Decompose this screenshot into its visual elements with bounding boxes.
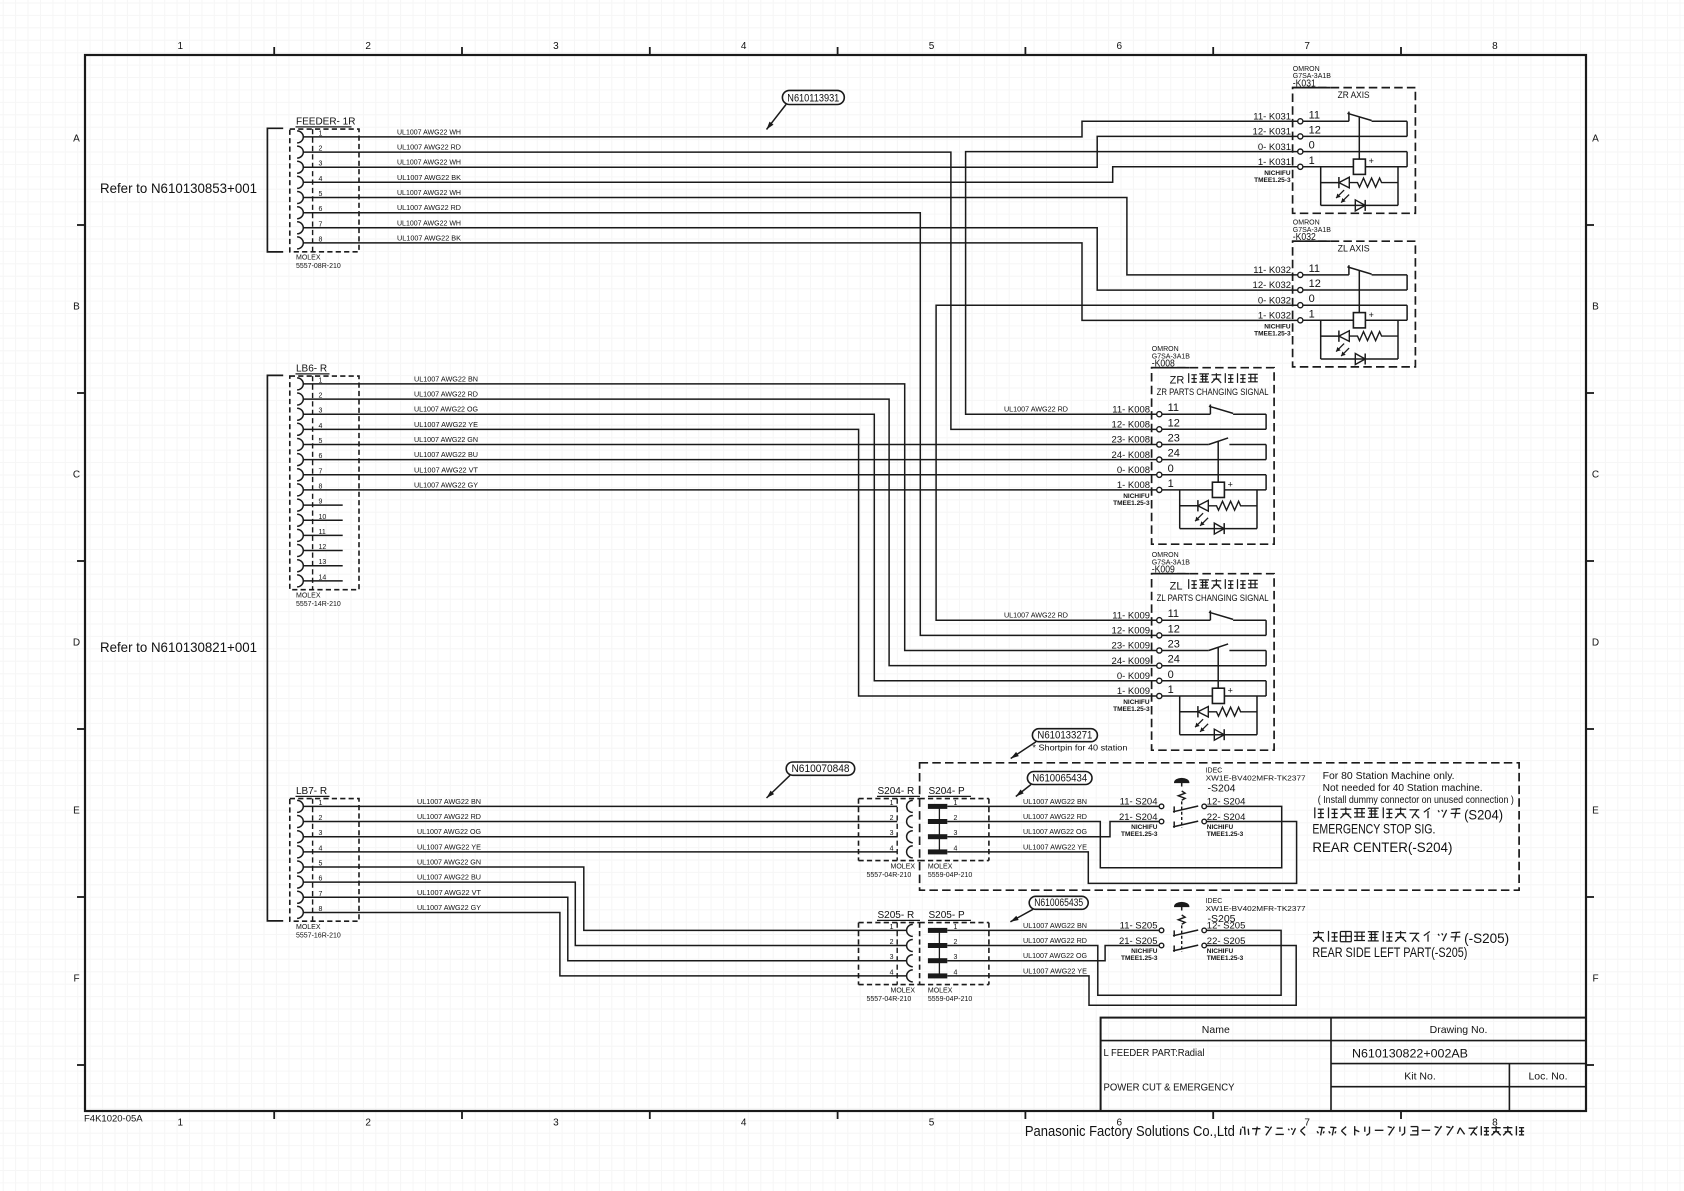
connector FEEDER-1R pin 8 contact [297, 236, 322, 249]
svg-text:+: + [1369, 310, 1374, 320]
wire FEEDER-1R pin7 (WH) to 12-K032 [303, 228, 1297, 290]
svg-text:N610113931: N610113931 [787, 92, 839, 104]
connector S204-P outline [920, 786, 989, 879]
LED light arrows [1336, 344, 1344, 352]
frame column ticks top/bottom [273, 47, 275, 55]
relay K008 terminal 1 [1117, 478, 1174, 493]
svg-text:TMEE1.25-3: TMEE1.25-3 [1121, 831, 1158, 838]
protection diode [1355, 354, 1365, 365]
switch S205 wire pin3 (OG) to terminal 21 [947, 946, 1159, 961]
svg-text:-S205: -S205 [1208, 913, 1236, 925]
connector S205-R pin 2 contact [890, 939, 913, 952]
connector LB7-R pin 8 contact [297, 906, 322, 919]
relay K032 terminal 0 [1258, 293, 1315, 308]
svg-text:UL1007 AWG22 RD: UL1007 AWG22 RD [414, 390, 478, 399]
svg-text:MOLEX: MOLEX [296, 924, 321, 931]
svg-text:UL1007 AWG22 VT: UL1007 AWG22 VT [417, 888, 482, 897]
svg-text:11- S204: 11- S204 [1120, 797, 1158, 808]
svg-text:8: 8 [1492, 41, 1498, 52]
relay K009 contact 23-24 [1162, 650, 1209, 652]
connector S205-P outline [920, 910, 989, 1003]
switch S204 NICHIFU terminal labels [1121, 824, 1244, 838]
connector FEEDER-1R pin 3 contact [297, 161, 322, 174]
svg-text:L FEEDER PART:Radial: L FEEDER PART:Radial [1104, 1047, 1205, 1059]
relay K031 contact 11-12 [1303, 120, 1349, 122]
svg-text:Loc. No.: Loc. No. [1528, 1071, 1567, 1083]
LED indicator branch [1320, 167, 1322, 206]
connector LB6-R pin 11 stub wire [303, 534, 342, 536]
svg-text:Drawing No.: Drawing No. [1430, 1024, 1488, 1036]
svg-text:UL1007 AWG22 RD: UL1007 AWG22 RD [397, 203, 461, 212]
switch S204 return wire terminal 12 to pin2 (RD) [947, 806, 1281, 867]
svg-text:B: B [73, 302, 80, 313]
protection diode [1355, 200, 1365, 211]
svg-text:UL1007 AWG22 BK: UL1007 AWG22 BK [397, 173, 461, 182]
svg-text:UL1007 AWG22 GY: UL1007 AWG22 GY [414, 480, 478, 489]
relay K008 wires 0 and 1 [1162, 474, 1266, 476]
relay K008 terminal 23 [1112, 433, 1180, 448]
connector S204-R pin 4 contact [890, 845, 913, 858]
svg-text:5557-04R-210: 5557-04R-210 [867, 872, 912, 879]
svg-text:+: + [1228, 686, 1233, 696]
switch S204 terminal labels [1119, 797, 1245, 823]
wire FEEDER-1R pin5 (WH) to 11-K032 [303, 198, 1297, 275]
svg-text:UL1007 AWG22 VT: UL1007 AWG22 VT [414, 465, 479, 474]
relay K031 terminal 0 [1258, 140, 1315, 155]
relay K031 NICHIFU terminal label [1254, 170, 1291, 184]
svg-text:A: A [73, 134, 80, 145]
wire FEEDER-1R pin6 (RD) to 12-K009 [303, 213, 1156, 636]
connector LB7-R pin 6 contact [297, 876, 322, 889]
wires LB7-R pins1-4 to S204-R [303, 805, 897, 807]
svg-text:24: 24 [1168, 654, 1180, 666]
connector LB6-R pin 11 contact [297, 529, 326, 542]
connector FEEDER-1R pin 1 contact [297, 130, 322, 143]
svg-text:XW1E-BV402MFR-TK2377: XW1E-BV402MFR-TK2377 [1206, 776, 1306, 783]
svg-text:UL1007 AWG22 RD: UL1007 AWG22 RD [1023, 936, 1087, 945]
relay K008 contact 23-24 [1162, 444, 1209, 446]
svg-text:0: 0 [1309, 293, 1315, 305]
svg-text:(S204): (S204) [1464, 807, 1503, 823]
svg-text:UL1007 AWG22 BN: UL1007 AWG22 BN [1023, 921, 1087, 930]
svg-text:22- S204: 22- S204 [1207, 812, 1246, 823]
relay K008 terminal 12 [1112, 417, 1180, 432]
svg-text:UL1007 AWG22 BN: UL1007 AWG22 BN [417, 797, 481, 806]
connector S205-R pin 1 contact [890, 924, 913, 937]
connector FEEDER-1R pin 7 contact [297, 221, 322, 234]
relay K032 NICHIFU terminal label [1254, 323, 1291, 337]
connector S204-P pin 3 male blade [928, 830, 958, 839]
LED indicator branch [1179, 490, 1181, 529]
LED light arrows [1336, 190, 1344, 198]
svg-text:A: A [1592, 134, 1599, 145]
svg-text:F: F [1592, 974, 1598, 985]
wire LB6-R pin3 (OG) to 0-K009 [303, 414, 1156, 681]
svg-text:XW1E-BV402MFR-TK2377: XW1E-BV402MFR-TK2377 [1206, 906, 1306, 913]
connector LB6-R pin 13 contact [297, 559, 326, 572]
svg-text:IDEC: IDEC [1206, 768, 1223, 775]
switch S204 contact at y=822 [1159, 819, 1206, 828]
svg-text:23: 23 [1168, 433, 1180, 445]
svg-text:Name: Name [1202, 1024, 1230, 1036]
svg-text:UL1007 AWG22 WH: UL1007 AWG22 WH [397, 218, 461, 227]
wire FEEDER-1R pin3 (WH) to 12-K031 [303, 136, 1297, 167]
relay K032 outline box [1293, 241, 1416, 367]
svg-text:N610133271: N610133271 [1037, 730, 1092, 742]
balloon label N610065435 [1010, 896, 1088, 922]
svg-text:MOLEX: MOLEX [891, 863, 916, 870]
connector LB6-R pin 12 stub wire [303, 550, 342, 552]
connector LB6-R pin 10 stub wire [303, 519, 342, 521]
svg-text:4: 4 [890, 845, 894, 852]
wire FEEDER-1R pin4 (BK) to 1-K031 [303, 167, 1297, 183]
svg-text:UL1007 AWG22 YE: UL1007 AWG22 YE [1023, 842, 1087, 851]
switch S205 mushroom actuator [1175, 902, 1189, 910]
svg-text:OMRON: OMRON [1293, 220, 1320, 227]
connector LB7-R pin 4 contact [297, 845, 322, 858]
svg-text:OMRON: OMRON [1152, 552, 1179, 559]
svg-text:MOLEX: MOLEX [296, 255, 321, 262]
connector S205-R pin 4 contact [890, 969, 913, 982]
svg-text:21- S204: 21- S204 [1119, 812, 1158, 823]
svg-text:TMEE1.25-3: TMEE1.25-3 [1121, 955, 1158, 962]
relay K031 outline box [1293, 88, 1416, 214]
switch S204 contact at y=806 [1159, 804, 1206, 813]
connector FEEDER-1R pin 4 contact [297, 176, 322, 189]
wire LB6-R pin1 (BN) to 23-K009 [303, 384, 1156, 651]
svg-text:UL1007 AWG22 GN: UL1007 AWG22 GN [414, 435, 478, 444]
connector S205-P spine [938, 930, 940, 976]
svg-text:UL1007 AWG22 OG: UL1007 AWG22 OG [1023, 951, 1087, 960]
connector S205-P pin 4 male blade [928, 969, 958, 978]
svg-text:B: B [1592, 302, 1599, 313]
relay K032 wires 0 and 1 [1303, 304, 1407, 306]
svg-text:11: 11 [1309, 109, 1320, 121]
svg-text:11- S205: 11- S205 [1120, 921, 1158, 932]
connector LB6-R pin 14 contact [297, 574, 326, 587]
svg-text:NICHIFU: NICHIFU [1207, 948, 1234, 955]
svg-text:1: 1 [1168, 684, 1174, 696]
relay K008 terminal 11 [1112, 402, 1179, 417]
note For 80 Station Machine only [1318, 771, 1514, 806]
svg-text:24: 24 [1168, 448, 1180, 460]
wire LB7-R pin7 (VT) to S205-R pin3 [303, 897, 906, 960]
switch S205 spring symbol [1178, 915, 1185, 924]
svg-text:S205- R: S205- R [878, 910, 915, 921]
switch S204 mechanical link dashed line [1181, 801, 1183, 827]
relay K009 wires 0 and 1 [1162, 680, 1266, 682]
connector S204-R pin 2 contact [890, 815, 913, 828]
wire net 0-K031 to 11-K008 (RD) [966, 152, 1298, 415]
svg-text:UL1007 AWG22 OG: UL1007 AWG22 OG [417, 827, 481, 836]
relay K008 part labels [1151, 346, 1190, 370]
svg-text:1: 1 [1168, 478, 1174, 490]
svg-text:C: C [1592, 470, 1599, 481]
svg-text:UL1007 AWG22 OG: UL1007 AWG22 OG [414, 405, 478, 414]
connector S204-P spine [938, 806, 940, 852]
svg-text:0: 0 [1168, 669, 1174, 681]
svg-text:F4K1020-05A: F4K1020-05A [84, 1114, 143, 1125]
relay K009 contact 11-12 [1162, 619, 1211, 621]
svg-text:S204- R: S204- R [878, 786, 915, 797]
svg-text:11: 11 [1309, 263, 1320, 275]
switch S205 return wire terminal 12 to pin2 (RD) [947, 930, 1281, 995]
svg-text:OMRON: OMRON [1293, 66, 1320, 73]
connector LB6-R pin 13 stub wire [303, 565, 342, 567]
svg-text:UL1007 AWG22 GN: UL1007 AWG22 GN [417, 858, 481, 867]
svg-text:UL1007 AWG22 RD: UL1007 AWG22 RD [1023, 812, 1087, 821]
connector LB6-R pin 12 contact [297, 544, 326, 557]
wire LB6-R pin4 (YE) to 1-K009 [303, 429, 1156, 696]
relay coil [1217, 441, 1219, 482]
connector LB7-R outline [290, 786, 359, 939]
S204 option outline box (80 station machine only) [920, 763, 1520, 890]
svg-text:TMEE1.25-3: TMEE1.25-3 [1254, 177, 1291, 184]
relay K031 terminal 1 [1258, 155, 1315, 170]
svg-text:REAR CENTER(-S204): REAR CENTER(-S204) [1312, 840, 1452, 855]
svg-text:ZR PARTS CHANGING SIGNAL: ZR PARTS CHANGING SIGNAL [1157, 387, 1269, 398]
svg-text:UL1007 AWG22 RD: UL1007 AWG22 RD [1004, 405, 1068, 414]
wire FEEDER-1R pin8 (BK) to 1-K032 [303, 243, 1297, 321]
connector LB6-R pin 9 contact [297, 499, 322, 512]
connector LB7-R pin 7 contact [297, 891, 322, 904]
svg-text:Not needed for 40 Station mach: Not needed for 40 Station machine. [1323, 783, 1483, 794]
relay K009 terminal 12 [1112, 623, 1180, 638]
relay K031 part labels [1292, 66, 1331, 90]
svg-text:UL1007 AWG22 RD: UL1007 AWG22 RD [1004, 611, 1068, 620]
relay K031 terminal 12 [1253, 124, 1321, 139]
svg-text:1: 1 [178, 41, 184, 52]
svg-text:12: 12 [1168, 417, 1180, 429]
wire LB7-R pin5 (GN) to S205-R pin1 [303, 867, 906, 930]
coil supply wire (terminal 0) [1406, 305, 1408, 320]
svg-text:C: C [73, 470, 80, 481]
connector S204-P pin 2 male blade [928, 815, 958, 824]
svg-text:( Install dummy connector on u: ( Install dummy connector on unused conn… [1318, 795, 1514, 806]
relay K008 terminal 24 [1112, 448, 1180, 463]
svg-text:TMEE1.25-3: TMEE1.25-3 [1113, 706, 1150, 713]
relay K031 wires 0 and 1 [1303, 151, 1407, 153]
svg-text:UL1007 AWG22 WH: UL1007 AWG22 WH [397, 188, 461, 197]
svg-text:2: 2 [890, 939, 894, 946]
relay K009 part labels [1151, 552, 1190, 576]
connector FEEDER-1R outline [290, 117, 359, 270]
LED series resistor [1208, 707, 1257, 716]
svg-text:5557-08R-210: 5557-08R-210 [296, 263, 341, 270]
svg-text:11: 11 [1168, 608, 1179, 620]
svg-text:5557-14R-210: 5557-14R-210 [296, 601, 341, 608]
svg-text:1: 1 [1309, 308, 1315, 320]
title block table [1101, 1018, 1586, 1111]
bracket for FEEDER-1R refer note [267, 128, 283, 252]
connector LB7-R pin 2 contact [297, 815, 322, 828]
LED series resistor [1349, 178, 1398, 187]
wire net 0-K032 to 11-K009 (RD) [936, 305, 1298, 620]
connector LB6-R pin 1 contact [297, 377, 322, 390]
svg-text:ZR: ZR [1170, 375, 1185, 387]
svg-text:* Shortpin for 40 station: * Shortpin for 40 station [1032, 743, 1127, 753]
svg-text:0: 0 [1309, 140, 1315, 152]
connector LB6-R pin 4 contact [297, 423, 322, 436]
svg-text:Kit No.: Kit No. [1404, 1071, 1436, 1083]
svg-text:REAR SIDE LEFT PART(-S205): REAR SIDE LEFT PART(-S205) [1312, 945, 1467, 960]
svg-text:12: 12 [1309, 124, 1321, 136]
wire LB6-R pin5 (GN) to 23-K008 [303, 444, 1156, 446]
svg-text:3: 3 [553, 41, 559, 52]
svg-text:7: 7 [1304, 41, 1310, 52]
svg-text:D: D [1592, 638, 1599, 649]
frame row ticks left/right [77, 224, 85, 226]
LED series resistor [1349, 332, 1398, 341]
relay K009 terminal 0 [1117, 669, 1174, 684]
svg-text:6: 6 [1117, 41, 1123, 52]
svg-text:For 80 Station Machine only.: For 80 Station Machine only. [1323, 771, 1455, 782]
svg-text:0: 0 [1168, 463, 1174, 475]
svg-text:1: 1 [178, 1118, 184, 1129]
relay K031 terminal 11 [1253, 109, 1320, 124]
svg-text:MOLEX: MOLEX [928, 863, 953, 870]
connector LB6-R pin 7 contact [297, 468, 322, 481]
svg-text:MOLEX: MOLEX [891, 987, 916, 994]
relay K009 terminal 1 [1117, 684, 1174, 699]
svg-text:1: 1 [890, 800, 894, 807]
relay K008 terminal 0 [1117, 463, 1174, 478]
svg-text:Refer to N610130853+001: Refer to N610130853+001 [100, 180, 257, 196]
relay K009 terminal 24 [1112, 654, 1180, 669]
relay K008 contact 11-12 [1162, 413, 1211, 415]
svg-text:4: 4 [741, 41, 747, 52]
wire LB6-R pin6 (BU) to 24-K008 [303, 459, 1156, 461]
svg-text:MOLEX: MOLEX [296, 592, 321, 599]
switch S205 contact at y=946 [1159, 943, 1206, 952]
svg-text:OMRON: OMRON [1152, 346, 1179, 353]
connector S205-R pin 3 contact [890, 954, 913, 967]
svg-text:UL1007 AWG22 BN: UL1007 AWG22 BN [1023, 797, 1087, 806]
svg-text:22- S205: 22- S205 [1207, 936, 1246, 947]
connector FEEDER-1R pin 6 contact [297, 206, 322, 219]
connector LB6-R pin 14 stub wire [303, 580, 342, 582]
svg-text:F: F [73, 974, 79, 985]
connector LB6-R pin 8 contact [297, 483, 322, 496]
connector LB7-R pin 5 contact [297, 861, 322, 874]
svg-text:FEEDER- 1R: FEEDER- 1R [296, 117, 355, 128]
connector S204-R pin 3 contact [890, 830, 913, 843]
svg-text:Panasonic Factory Solutions Co: Panasonic Factory Solutions Co.,Ltd [1025, 1123, 1235, 1140]
connector LB7-R pin 1 contact [297, 800, 322, 813]
svg-text:IDEC: IDEC [1206, 898, 1223, 905]
svg-text:LB7- R: LB7- R [296, 786, 327, 797]
relay K032 terminal 1 [1258, 308, 1315, 323]
svg-text:NICHIFU: NICHIFU [1123, 493, 1150, 500]
relay K032 part labels [1292, 220, 1331, 244]
svg-text:UL1007 AWG22 BU: UL1007 AWG22 BU [417, 873, 481, 882]
svg-text:+: + [1228, 479, 1233, 489]
switch S205 terminal labels [1119, 921, 1245, 947]
svg-text:4: 4 [741, 1118, 747, 1129]
balloon label N610070848 [767, 762, 855, 798]
svg-text:UL1007 AWG22 GY: UL1007 AWG22 GY [417, 903, 481, 912]
balloon label N610113931 [767, 90, 845, 129]
svg-text:MOLEX: MOLEX [928, 987, 953, 994]
svg-text:UL1007 AWG22 WH: UL1007 AWG22 WH [397, 158, 461, 167]
relay K032 contact 11-12 [1303, 274, 1349, 276]
svg-text:E: E [1592, 806, 1599, 817]
svg-text:3: 3 [890, 954, 894, 961]
svg-text:EMERGENCY STOP SIG.: EMERGENCY STOP SIG. [1312, 822, 1435, 837]
svg-text:ZL AXIS: ZL AXIS [1338, 244, 1370, 255]
svg-text:12: 12 [1309, 278, 1321, 290]
wire LB6-R pin7 (VT) to 0-K008 [303, 474, 1156, 476]
balloon label N610065434 [1016, 772, 1092, 797]
switch S204 spring symbol [1178, 791, 1185, 800]
svg-text:TMEE1.25-3: TMEE1.25-3 [1207, 955, 1244, 962]
relay K009 terminal 23 [1112, 639, 1180, 654]
relay K009 terminal 11 [1112, 608, 1179, 623]
svg-text:5559-04P-210: 5559-04P-210 [928, 996, 972, 1003]
svg-text:+: + [1369, 156, 1374, 166]
svg-text:NICHIFU: NICHIFU [1264, 323, 1291, 330]
connector LB6-R outline [290, 364, 359, 608]
svg-text:NICHIFU: NICHIFU [1207, 824, 1234, 831]
svg-text:UL1007 AWG22 YE: UL1007 AWG22 YE [1023, 966, 1087, 975]
connector S205-R outline [859, 910, 921, 1003]
svg-text:-S204: -S204 [1208, 783, 1236, 795]
connector S205-P pin 3 male blade [928, 954, 958, 963]
relay coil [1217, 647, 1219, 688]
switch S205 NICHIFU terminal labels [1121, 948, 1244, 962]
svg-text:LB6- R: LB6- R [296, 364, 327, 375]
switch S205 return wire terminal 22 to pin4 (YE) [947, 946, 1296, 1006]
svg-text:N610070848: N610070848 [792, 763, 850, 775]
svg-text:ZL: ZL [1170, 581, 1183, 593]
relay K008 outline box [1152, 368, 1275, 545]
svg-text:UL1007 AWG22 WH: UL1007 AWG22 WH [397, 127, 461, 136]
svg-text:(-S205): (-S205) [1464, 930, 1509, 946]
relay K008 NICHIFU terminal label [1113, 493, 1150, 507]
switch S204 mushroom actuator [1175, 778, 1189, 786]
coil supply wire (terminal 0) [1406, 152, 1408, 167]
svg-text:1: 1 [1309, 155, 1315, 167]
svg-text:UL1007 AWG22 BK: UL1007 AWG22 BK [397, 233, 461, 242]
svg-text:N610065434: N610065434 [1032, 772, 1087, 784]
protection diode [1214, 523, 1224, 534]
svg-text:2: 2 [365, 1118, 371, 1129]
coil supply wire (terminal 0) [1265, 681, 1267, 696]
svg-text:2: 2 [890, 815, 894, 822]
svg-text:5: 5 [929, 41, 935, 52]
drawing frame border [85, 55, 1586, 1111]
coil supply wire (terminal 0) [1265, 475, 1267, 490]
wire LB7-R pin8 (GY) to S205-R pin4 [303, 913, 906, 976]
switch S205 mechanical link dashed line [1181, 925, 1183, 951]
svg-text:5: 5 [929, 1118, 935, 1129]
svg-text:5557-16R-210: 5557-16R-210 [296, 932, 341, 939]
svg-text:NICHIFU: NICHIFU [1264, 170, 1291, 177]
connector S205-P pin 2 male blade [928, 939, 958, 948]
connector S204-R outline [859, 786, 921, 879]
svg-text:5559-04P-210: 5559-04P-210 [928, 872, 972, 879]
title block texts [1104, 1024, 1568, 1094]
svg-text:Refer to N610130821+001: Refer to N610130821+001 [100, 639, 257, 655]
svg-text:ZR AXIS: ZR AXIS [1338, 90, 1370, 101]
switch S204 return wire terminal 22 to pin4 (YE) [947, 822, 1296, 884]
svg-text:21- S205: 21- S205 [1119, 936, 1158, 947]
LED indicator branch [1179, 696, 1181, 735]
connector FEEDER-1R pin 2 contact [297, 146, 322, 159]
protection diode [1214, 729, 1224, 740]
connector LB6-R pin 2 contact [297, 393, 322, 406]
LED indicator branch [1320, 320, 1322, 359]
